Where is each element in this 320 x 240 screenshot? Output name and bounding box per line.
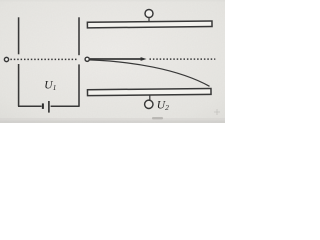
bottom deflecting plate	[87, 88, 211, 95]
left terminal (beam source)	[4, 57, 8, 61]
right accelerating electrode	[78, 17, 80, 106]
left accelerating electrode	[18, 17, 20, 106]
wire from battery to right electrode	[51, 105, 80, 107]
battery U1	[43, 101, 49, 113]
beam axis dotted line, left section	[10, 58, 77, 60]
wire from left electrode to battery	[18, 105, 42, 107]
right terminal (anode aperture)	[85, 57, 89, 61]
electron trajectory to edge of lower plate	[89, 60, 209, 86]
beam velocity arrow	[90, 57, 147, 61]
top plate terminal	[145, 10, 153, 22]
beam axis dotted line, right section	[150, 58, 216, 60]
top deflecting plate	[87, 21, 212, 28]
bottom plate terminal	[145, 95, 153, 108]
